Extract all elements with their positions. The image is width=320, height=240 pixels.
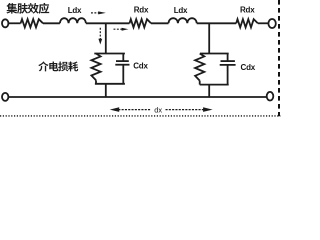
terminal port P3 (bottom-left) <box>2 93 8 101</box>
svg-text:dx: dx <box>154 105 162 114</box>
node B : shunt feed wire down to RC2 <box>208 23 210 53</box>
border (bottom, dotted) <box>0 115 280 117</box>
capacitor C1 Cdx : top lead <box>122 54 124 62</box>
current arrow (dashed, down) into shunt RC1 <box>98 28 102 45</box>
shunt RC section 1 : top bar wire <box>94 53 125 55</box>
label 介电损耗 (dielectric loss) <box>38 61 78 71</box>
label 集肤效应 (skin effect) <box>6 3 49 14</box>
svg-text:Cdx: Cdx <box>133 62 148 71</box>
shunt RC section 1 : bottom bar wire <box>95 83 125 85</box>
dimension arrow dx (left head) <box>110 107 152 112</box>
resistor R2 Rdx (series) <box>130 19 152 27</box>
inductor L2 Ldx <box>169 18 197 23</box>
node A : shunt feed wire down to RC1 <box>105 23 107 53</box>
svg-text:Rdx: Rdx <box>134 6 149 15</box>
terminal port P2 (top-right) <box>268 19 275 28</box>
wire L1 to R2 through node A <box>86 22 130 24</box>
capacitor C1 bottom lead <box>122 65 124 84</box>
shunt RC section 2 : top bar wire <box>200 53 229 55</box>
dimension arrow dx (right head) <box>166 107 213 112</box>
resistor R1 (skin effect series R) <box>21 19 43 27</box>
svg-text:Rdx: Rdx <box>240 6 255 15</box>
resistor R4 (dielectric loss, vertical) <box>91 54 100 81</box>
resistor R5 (dielectric loss, vertical) <box>195 54 204 81</box>
wire R4 bottom lead <box>95 80 97 84</box>
wire L2 to R3 through node B <box>197 22 237 24</box>
terminal port P4 (bottom-right) <box>267 92 274 101</box>
capacitor C2 Cdx : top lead <box>227 54 229 62</box>
wire R5 bottom lead <box>199 81 201 85</box>
svg-text:Cdx: Cdx <box>241 63 256 72</box>
svg-text:Ldx: Ldx <box>68 6 82 15</box>
shunt RC section 2 : bottom bar wire <box>200 84 229 86</box>
inductor L1 Ldx <box>60 18 86 23</box>
capacitor C2 plates <box>221 60 235 62</box>
wire R3 to P2 <box>258 22 268 24</box>
wire RC2 to bottom rail <box>208 85 210 97</box>
wire P1 to R1 <box>9 22 21 24</box>
wire R2 to L2 <box>151 22 169 24</box>
svg-text:Ldx: Ldx <box>174 6 188 15</box>
capacitor C2 bottom lead <box>227 65 229 85</box>
border (right, dashed) <box>278 0 280 116</box>
current arrow I (dashed, right) above wire <box>91 11 106 14</box>
resistor R3 Rdx (series) <box>236 19 258 27</box>
capacitor C1 plates <box>116 60 129 62</box>
terminal port P1 (top-left) <box>2 19 8 27</box>
wire R1 to L1 <box>43 22 60 24</box>
bottom rail wire P3 to P4 <box>9 96 266 98</box>
wire RC1 to bottom rail <box>105 84 107 97</box>
current arrow (dashed, right) after node A <box>114 28 129 31</box>
